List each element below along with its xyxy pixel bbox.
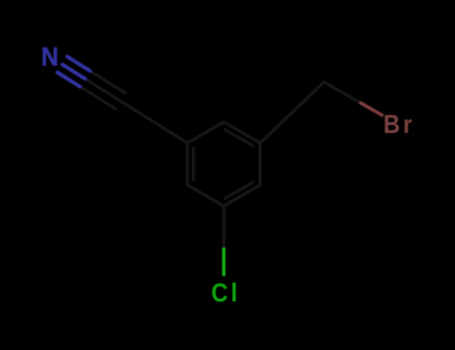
wire: bond B to Cl gray half xyxy=(222,206,225,250)
wire: triple bond gray half upper line xyxy=(90,71,125,93)
wire: ring edge T-TR xyxy=(224,122,260,143)
wire: ring edge TL-T xyxy=(187,122,223,143)
wire: ring edge BR-B xyxy=(224,185,260,206)
atom label N xyxy=(41,43,58,72)
svg-text:Br: Br xyxy=(383,111,415,139)
benzene ring C1-C6 xyxy=(80,71,361,250)
svg-text:Cl: Cl xyxy=(211,279,240,307)
svg-text:N: N xyxy=(41,43,58,72)
wire: ring edge B-BL xyxy=(187,185,223,206)
wire: bond C8 to Br gray half xyxy=(324,82,361,103)
nitrile triple bond (blue half, three lines) xyxy=(57,57,90,87)
double bond inner line T-TR xyxy=(225,130,253,146)
bond to Cl (green half) xyxy=(222,249,225,274)
double bond inner line BL-TL xyxy=(192,148,195,180)
wire: ring edge BL-TL xyxy=(186,143,189,185)
double bond inner line BR-B xyxy=(225,182,253,198)
atom label Cl xyxy=(211,279,240,307)
atom label Br xyxy=(383,111,415,139)
bond to Br (maroon half) xyxy=(361,103,382,115)
wire: single bond C7 to ring TL (nitrile attachment) xyxy=(85,79,187,143)
wire: bond ring TR to CH2 (C8) xyxy=(260,82,324,143)
wire: triple bond gray half lower line xyxy=(80,87,115,109)
wire: ring edge TR-BR xyxy=(259,143,262,185)
